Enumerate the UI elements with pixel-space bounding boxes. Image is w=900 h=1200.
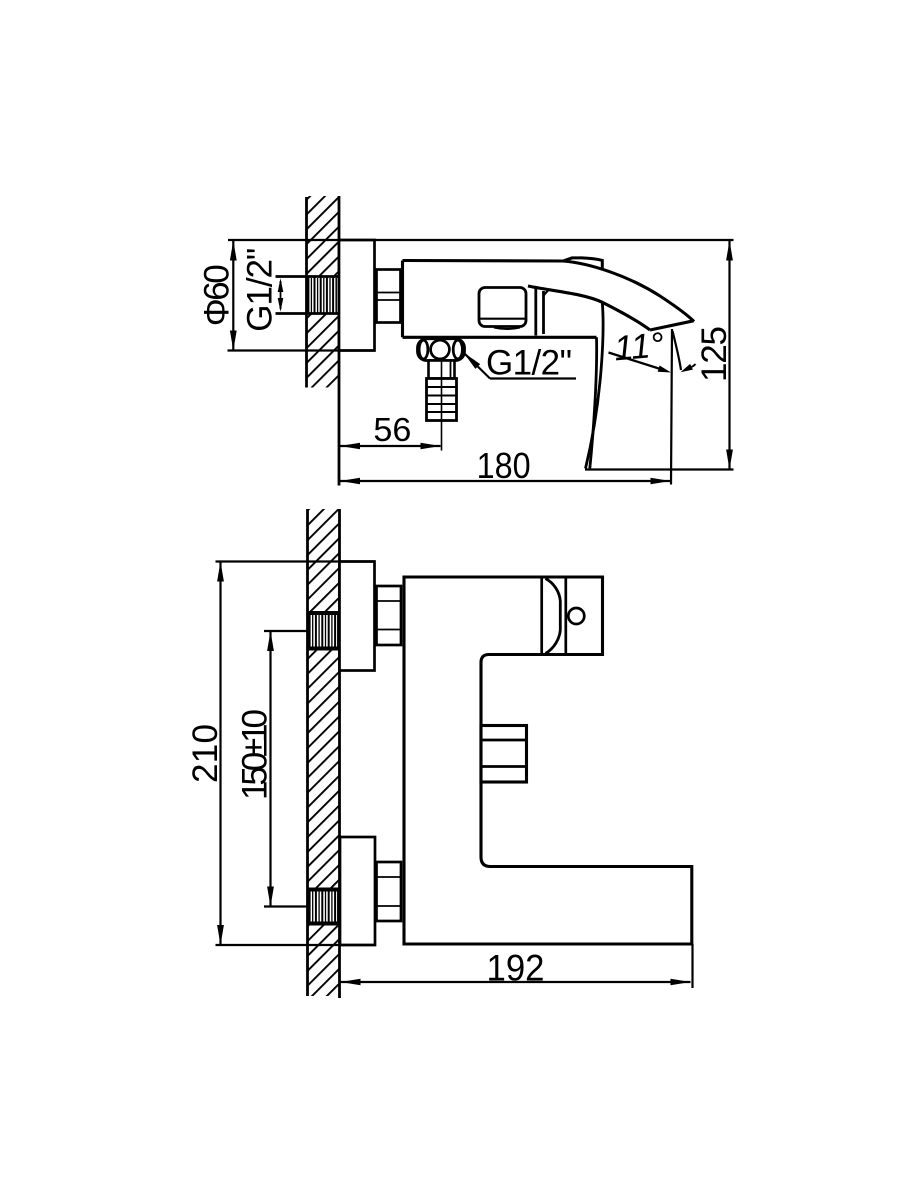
waterfall blade inner edge (side view): [590, 337, 597, 468]
svg-text:G1/2": G1/2": [486, 344, 572, 383]
cartridge window (side view): [479, 288, 526, 330]
svg-text:56: 56: [373, 411, 411, 448]
wall left edge (plan view): [306, 509, 309, 996]
150 top extension line: [264, 630, 308, 632]
bottom-left extension line y=350.5: [228, 349, 375, 351]
wall right edge (plan view): [338, 509, 341, 998]
inlet thread in wall (side view): [276, 277, 339, 314]
spout tip face (side view): [650, 321, 694, 330]
upper escutcheon plate (plan view): [340, 562, 375, 671]
192 right extension line: [691, 944, 693, 988]
lower inlet thread (plan view): [308, 890, 340, 924]
spout blade right edge near tip (side view): [673, 331, 682, 370]
wall left edge (side view): [305, 197, 308, 388]
spout lower curve (side view): [528, 286, 650, 330]
svg-text:G1/2": G1/2": [241, 248, 280, 332]
spout tip extension line: [671, 329, 672, 485]
210 bottom extension line: [216, 944, 376, 946]
wall right edge + wall-surface extension line (side view): [338, 196, 341, 486]
faucet body (side view): [403, 261, 597, 338]
150 bottom extension line: [264, 905, 308, 907]
210 top extension line: [216, 560, 375, 562]
wall hatch (side view): [307, 196, 340, 388]
dimension 150+-10: [236, 631, 275, 907]
svg-text:192: 192: [487, 947, 545, 989]
hose axis line (side view): [441, 361, 443, 451]
shower outlet nut (side view): [418, 339, 465, 361]
dimension 56: [340, 411, 441, 449]
handle details (plan view): [542, 578, 566, 654]
svg-text:150±10: 150±10: [236, 709, 275, 800]
dimension 180: [340, 445, 671, 486]
hex nut (side view): [377, 270, 401, 323]
bottom-right extension line y=469.5: [585, 468, 734, 470]
lower escutcheon plate (plan view): [340, 837, 375, 945]
diverter tab (plan view): [481, 726, 527, 783]
lower hex nut (plan view): [377, 862, 402, 921]
upper hex nut (plan view): [377, 586, 402, 645]
dimension 192: [341, 947, 691, 989]
dimension 210: [186, 562, 225, 946]
thread size double arrow (side view): [278, 278, 284, 312]
wall hatch (plan view): [308, 509, 340, 996]
11 degree angle dimension: [609, 325, 696, 372]
escutcheon plate (side view): [339, 240, 375, 351]
svg-text:210: 210: [186, 724, 225, 783]
spout upper curve (side view): [563, 261, 694, 322]
faucet body outline (plan view): [404, 577, 692, 944]
top extension line y=240: [228, 239, 734, 241]
svg-text:180: 180: [477, 445, 531, 486]
leader to shower outlet with G1/2" label: [464, 344, 577, 383]
svg-text:125: 125: [695, 326, 734, 382]
shower hose connector (side view): [427, 361, 457, 421]
svg-text:11°: 11°: [612, 325, 665, 368]
lever handle (side view): [563, 258, 602, 269]
dimension 125: [695, 240, 734, 470]
waterfall blade outer edge (side view): [586, 303, 604, 469]
upper inlet thread (plan view): [308, 613, 340, 649]
handle pivot pin (plan view): [568, 608, 584, 624]
body inner vertical edges (side view): [536, 288, 549, 336]
dimension Phi60: [198, 240, 237, 351]
svg-text:Φ60: Φ60: [198, 264, 237, 326]
